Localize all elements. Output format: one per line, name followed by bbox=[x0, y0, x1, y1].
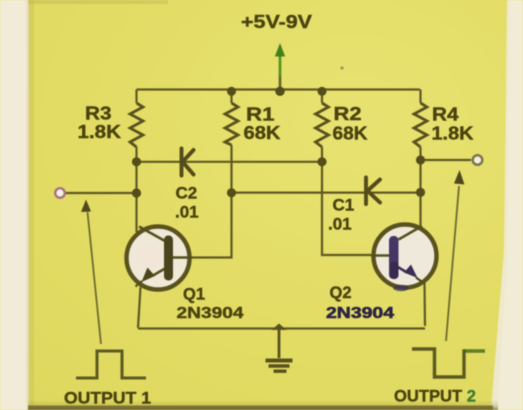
svg-text:1.8K: 1.8K bbox=[432, 123, 475, 144]
wire: R3 / Q1 collector column bbox=[135, 90, 137, 233]
output 1 waveform (positive pulse) bbox=[76, 351, 146, 378]
svg-text:Q1: Q1 bbox=[183, 286, 205, 304]
node: rail-R1 junction bbox=[227, 87, 236, 96]
svg-text:Q2: Q2 bbox=[330, 284, 352, 302]
output 1 terminal bbox=[55, 188, 65, 198]
svg-text:68K: 68K bbox=[333, 123, 369, 144]
wire: emitter ground rail bbox=[138, 327, 425, 329]
transistor Q2 bbox=[371, 225, 437, 292]
svg-text:2N3904: 2N3904 bbox=[326, 305, 394, 322]
svg-text:.01: .01 bbox=[328, 215, 352, 234]
resistor R4 bbox=[414, 103, 427, 147]
pale strip right bbox=[491, 0, 523, 410]
beige margin strip left bbox=[0, 0, 28, 410]
svg-text:C2: C2 bbox=[176, 184, 198, 203]
wire: Q2 emitter lead bbox=[423, 283, 426, 326]
junction dots bbox=[132, 87, 425, 198]
capacitor C1 bbox=[366, 178, 380, 205]
svg-text:+5V-9V: +5V-9V bbox=[241, 12, 312, 32]
pointer arrow to output 2 bbox=[446, 170, 465, 341]
resistor R2 bbox=[316, 103, 329, 147]
svg-text:68K: 68K bbox=[244, 122, 282, 143]
output 2 waveform (negative pulse) bbox=[412, 349, 485, 377]
svg-text:2N3904: 2N3904 bbox=[177, 305, 244, 322]
wire: output 1 stub to Q1 collector node bbox=[66, 192, 137, 194]
wire: R1 / Q1 base column bbox=[192, 90, 232, 258]
wire: coupling row B (Q1 base to C1 to Q2 collector) bbox=[232, 192, 421, 194]
bottom scan smudge bbox=[28, 400, 498, 410]
svg-text:1.8K: 1.8K bbox=[78, 121, 122, 142]
ground bbox=[266, 324, 293, 372]
wire: Q1 emitter lead bbox=[138, 287, 141, 328]
power arrow (+5V-9V supply) bbox=[275, 43, 285, 89]
wire: top supply rail bbox=[137, 88, 421, 90]
node: rail-R2 junction bbox=[318, 87, 327, 96]
node: C1 / Q2 collector bbox=[416, 188, 425, 197]
svg-text:OUTPUT 1: OUTPUT 1 bbox=[64, 390, 151, 408]
svg-text:R4: R4 bbox=[432, 104, 459, 125]
wire: R4 node to output 2 terminal bbox=[421, 159, 472, 161]
capacitor C2 bbox=[182, 149, 194, 176]
wire: coupling row A (Q1 collector to C2 to Q2 base) bbox=[137, 161, 323, 163]
node: Q1 collector / C2 bbox=[132, 157, 141, 166]
transistor Q1 bbox=[127, 227, 193, 290]
svg-text:.01: .01 bbox=[175, 203, 199, 222]
output 2 terminal bbox=[473, 155, 483, 165]
wire: R2 / Q2 base column bbox=[322, 90, 371, 256]
node: output1 tap bbox=[132, 188, 141, 197]
node: Q1 base / C1 bbox=[227, 188, 236, 197]
resistor R1 bbox=[225, 103, 238, 145]
pointer arrow to output 1 bbox=[81, 200, 101, 345]
resistor R3 bbox=[130, 103, 143, 147]
node: C2 / Q2 base bbox=[317, 157, 326, 166]
svg-text:R2: R2 bbox=[334, 103, 362, 124]
svg-text:C1: C1 bbox=[333, 196, 355, 215]
svg-text:OUTPUT 2: OUTPUT 2 bbox=[394, 388, 476, 406]
node: R4 / output2 bbox=[416, 155, 425, 164]
node: rail-supply junction bbox=[275, 87, 284, 96]
wire: R4 / Q2 collector column bbox=[419, 90, 421, 227]
